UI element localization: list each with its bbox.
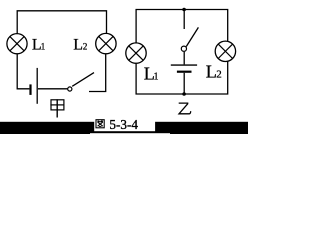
svg-text:L: L — [73, 36, 83, 53]
svg-text:5-3-4: 5-3-4 — [109, 117, 138, 132]
svg-text:1: 1 — [41, 42, 46, 52]
svg-text:2: 2 — [216, 69, 222, 81]
svg-text:2: 2 — [83, 43, 88, 53]
svg-text:L: L — [206, 61, 217, 81]
svg-text:1: 1 — [154, 71, 159, 82]
